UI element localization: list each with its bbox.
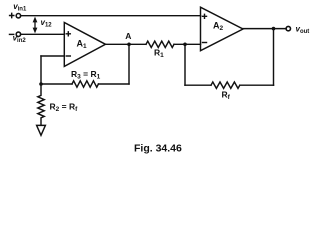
wire R1 to A2 minus input bbox=[174, 43, 201, 45]
svg-text:Fig. 34.46: Fig. 34.46 bbox=[134, 143, 182, 155]
junction dot R2/R3 bbox=[39, 82, 43, 86]
svg-text:R3 = R1: R3 = R1 bbox=[71, 69, 101, 81]
svg-text:v12: v12 bbox=[41, 18, 53, 29]
terminal vout bbox=[286, 26, 290, 30]
wire A1 minus input left bbox=[41, 55, 64, 57]
wire feedback A2 up to output bbox=[273, 29, 275, 86]
svg-text:R2 = Rf: R2 = Rf bbox=[50, 102, 79, 114]
minus mark A1 input bbox=[66, 55, 70, 57]
svg-text:A2: A2 bbox=[213, 21, 224, 33]
resistor R3 bbox=[72, 81, 98, 87]
svg-text:A1: A1 bbox=[77, 39, 88, 51]
wire feedback A2 down bbox=[184, 44, 186, 85]
op-amp A2 bbox=[201, 7, 244, 51]
node A junction dot bbox=[127, 43, 131, 47]
wire node A down bbox=[128, 44, 130, 84]
wire A2 output to vout bbox=[243, 28, 286, 30]
op-amp A1 bbox=[64, 23, 105, 67]
plus mark A1 input bbox=[66, 32, 70, 36]
plus mark A2 input bbox=[203, 14, 207, 18]
plus sign vin1 bbox=[10, 13, 14, 17]
wire R3 to node A vertical bbox=[99, 83, 130, 85]
resistor Rf bbox=[211, 82, 240, 88]
svg-text:R1: R1 bbox=[154, 48, 164, 60]
junction dot at A2 inverting input bbox=[183, 43, 187, 47]
svg-text:vin1: vin1 bbox=[13, 2, 27, 13]
resistor R2 vertical bbox=[38, 84, 44, 125]
svg-text:Rf: Rf bbox=[222, 90, 231, 102]
wire feedback A2 bottom right bbox=[240, 84, 274, 86]
terminal vin1 bbox=[16, 14, 20, 18]
wire feedback A2 bottom left bbox=[185, 84, 211, 86]
minus sign vin2 bbox=[10, 33, 14, 35]
minus mark A2 input bbox=[203, 42, 207, 44]
output junction dot bbox=[272, 27, 276, 31]
v12 measurement arrow bbox=[33, 17, 38, 34]
wire A1 output to node A and R1 bbox=[106, 43, 147, 45]
resistor R1 bbox=[146, 41, 174, 47]
wire vin2 to A1 plus input bbox=[21, 33, 64, 35]
svg-text:A: A bbox=[125, 31, 131, 41]
wire down to R3 row bbox=[40, 56, 42, 84]
wire vin1 to A2 plus input bbox=[21, 15, 201, 17]
ground bbox=[37, 125, 46, 135]
wire to R3 bbox=[41, 83, 72, 85]
svg-text:vout: vout bbox=[296, 24, 310, 35]
terminal vin2 bbox=[16, 32, 20, 36]
